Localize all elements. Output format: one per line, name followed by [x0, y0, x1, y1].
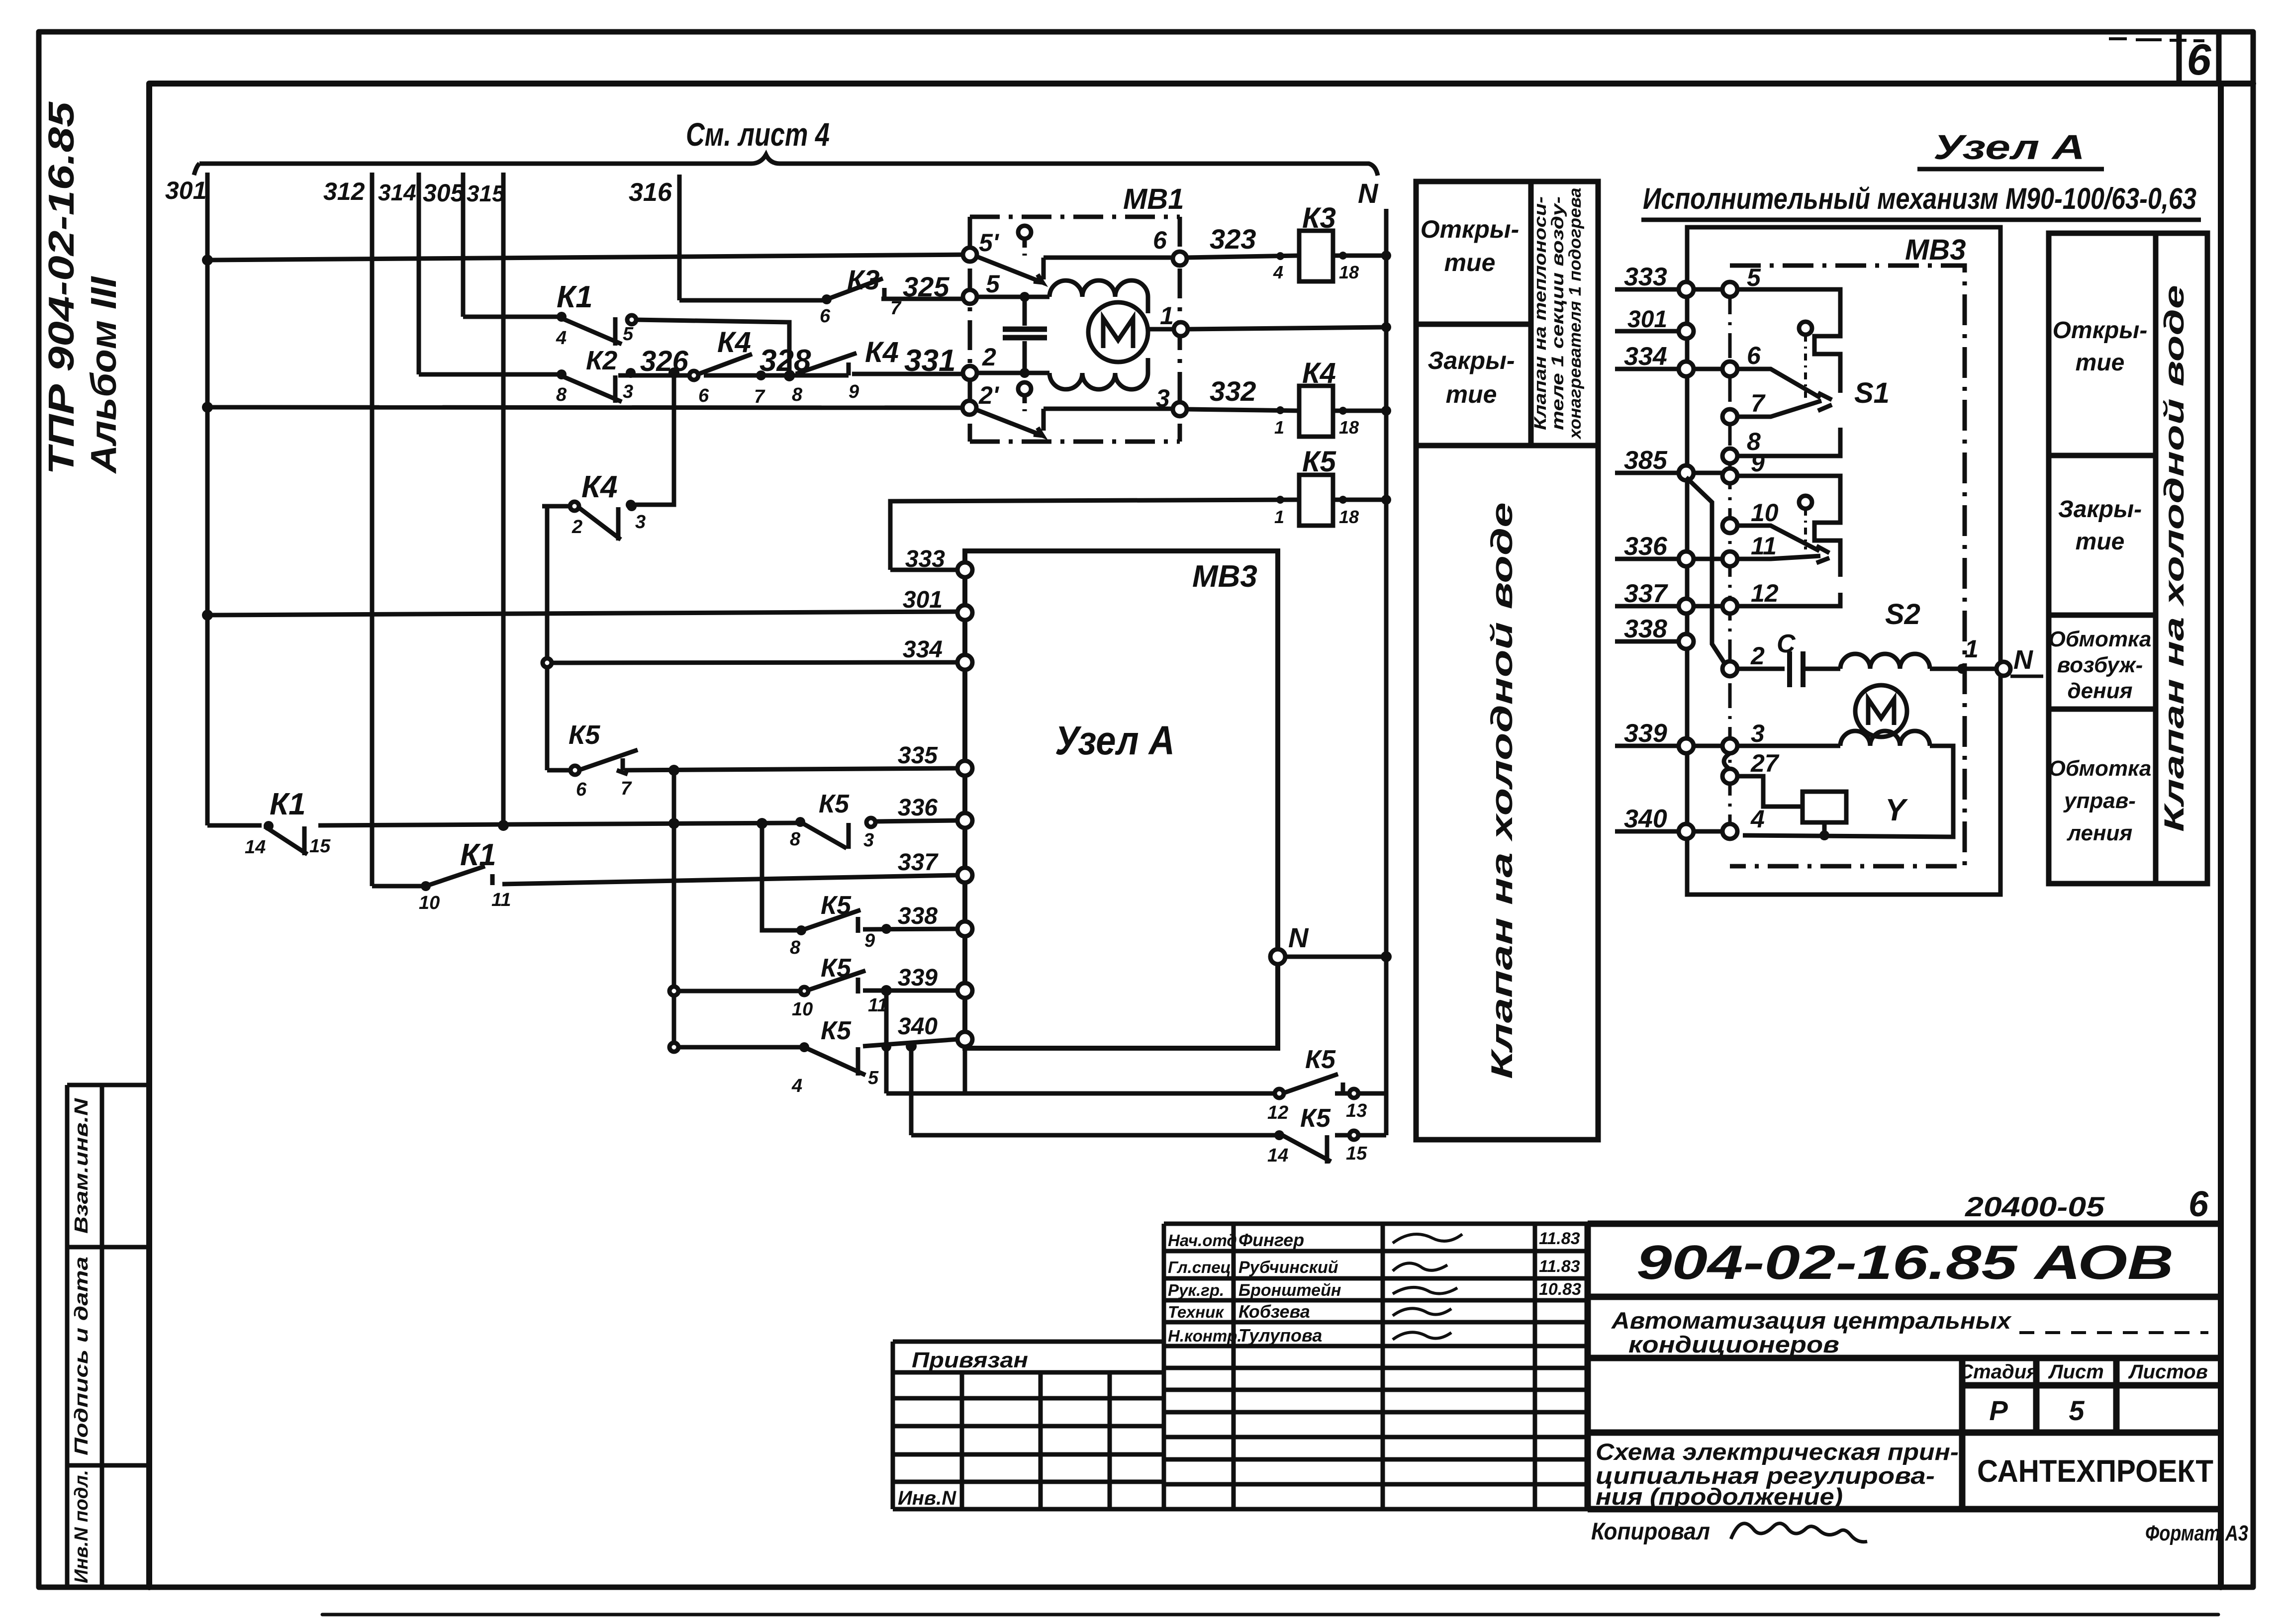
svg-text:301: 301 [903, 587, 943, 613]
svg-text:тие: тие [2076, 529, 2125, 555]
wire 326 K2 to K4 [618, 373, 691, 378]
contact K4 (6-7) [689, 354, 752, 380]
svg-text:Обмотка: Обмотка [2049, 627, 2152, 651]
svg-text:2: 2 [1750, 642, 1765, 670]
svg-text:6: 6 [576, 779, 587, 800]
svg-text:Обмотка: Обмотка [2049, 756, 2152, 781]
svg-text:4: 4 [791, 1076, 802, 1096]
excitation winding right [1840, 654, 1930, 669]
svg-text:12: 12 [1751, 579, 1779, 607]
svg-text:312: 312 [323, 178, 365, 205]
MB3 terminal 334 [957, 655, 972, 670]
vertical link wire x1100 [545, 505, 550, 770]
wire 332 from terminal 3 to relay K4 [1187, 409, 1299, 411]
svg-text:Копировал: Копировал [1591, 1519, 1710, 1545]
switch S2 fixed contact bracket [1737, 476, 1840, 606]
svg-text:6: 6 [1153, 226, 1167, 254]
MB1 motor circle [1088, 302, 1148, 362]
bus wire 301 to MB3 [207, 612, 958, 615]
svg-text:Схема электрическая прин-: Схема электрическая прин- [1596, 1439, 1959, 1465]
wire stub 333 to MB3 [890, 568, 958, 572]
svg-text:Клапан на теплоноси-: Клапан на теплоноси- [1531, 196, 1550, 430]
svg-text:К1: К1 [460, 838, 496, 872]
svg-text:11.83: 11.83 [1539, 1257, 1580, 1276]
MB1 limit switch 2' [976, 382, 1173, 436]
pin 4 tick [1276, 252, 1284, 260]
svg-text:Откры-: Откры- [2053, 317, 2148, 344]
svg-text:5: 5 [986, 270, 1000, 298]
svg-text:11: 11 [1751, 532, 1777, 560]
wire 334 to MB3 [553, 662, 958, 663]
attachment table bottom left [893, 1342, 1164, 1509]
wire 336 from K5 8-3 to MB3 [876, 820, 958, 821]
svg-text:5: 5 [2069, 1395, 2085, 1426]
terminal circles on link vertical [1722, 282, 1737, 839]
svg-text:Привязан: Привязан [912, 1348, 1028, 1372]
svg-text:9: 9 [864, 930, 875, 951]
svg-text:7: 7 [1751, 389, 1766, 417]
svg-text:C: C [1777, 630, 1796, 658]
wire K3 coil to N bus [1333, 254, 1386, 258]
svg-text:904-02-16.85 АОВ: 904-02-16.85 АОВ [1636, 1235, 2174, 1289]
svg-text:5: 5 [623, 324, 634, 345]
wire terminal 3 to winding [1737, 744, 1840, 748]
MB1 terminal 3 [1173, 402, 1187, 416]
svg-text:Узел А: Узел А [1933, 128, 2085, 167]
left small frame boxes column [67, 1085, 149, 1587]
svg-text:10: 10 [792, 999, 813, 1020]
svg-text:326: 326 [640, 345, 689, 377]
svg-text:11: 11 [491, 890, 511, 910]
svg-text:12: 12 [1267, 1102, 1288, 1123]
MB3 terminal 336 [957, 813, 972, 828]
svg-text:334: 334 [1624, 342, 1667, 371]
input wire 334 right [1615, 367, 1730, 371]
junction dot 1 [1957, 664, 1967, 674]
wire from MB3 area to relay K5 [890, 500, 1299, 570]
underline N right [2010, 675, 2043, 678]
capacitor C right [1737, 651, 1840, 687]
bus wire 301 to MB1 terminal 5' [207, 255, 970, 260]
pin 18 k5 [1339, 496, 1347, 504]
contact K5 (14-15) [1282, 1135, 1331, 1164]
actuator MB1 dash-dot box [970, 217, 1180, 442]
wire terminal 1 to N bus [1188, 327, 1386, 329]
title block main frame [1588, 1224, 2221, 1509]
wire 27 to Y element [1737, 776, 1803, 807]
branch vertical to K5 8-9 [762, 823, 797, 930]
contact K1 (4-5) [558, 315, 636, 346]
svg-text:339: 339 [1624, 719, 1667, 748]
motor M right circle [1855, 685, 1907, 737]
svg-text:К3: К3 [1302, 202, 1336, 234]
svg-text:336: 336 [1624, 532, 1668, 561]
svg-text:К1: К1 [557, 280, 593, 314]
wire 328 K4 to K4 [704, 373, 849, 378]
svg-text:323: 323 [1210, 223, 1256, 255]
N bus vertical [1384, 209, 1389, 1135]
svg-text:Автоматизация центральных: Автоматизация центральных [1611, 1307, 2012, 1334]
svg-text:Формат А3: Формат А3 [2145, 1521, 2248, 1545]
svg-text:6: 6 [1747, 342, 1761, 369]
wire 314 vertical [417, 173, 421, 374]
svg-text:N: N [1288, 922, 1309, 953]
input wire 301 right [1615, 329, 1686, 334]
MB3 terminal 301 [957, 605, 972, 620]
MB3 terminal 340 [957, 1032, 972, 1047]
MB1 motor M letter [1103, 318, 1133, 348]
svg-text:Взам.инв.N: Взам.инв.N [71, 1097, 92, 1234]
svg-text:К5: К5 [821, 954, 852, 983]
svg-text:Закры-: Закры- [1427, 347, 1515, 374]
wire winding to N right [1930, 667, 2008, 671]
pin 18 [1339, 252, 1347, 260]
svg-text:337: 337 [1624, 579, 1668, 608]
MB1 terminal 5' [963, 248, 977, 262]
svg-text:Р: Р [1989, 1395, 2008, 1426]
svg-text:4: 4 [556, 328, 567, 349]
svg-text:Клапан на холодной воде: Клапан на холодной воде [1485, 502, 1519, 1079]
svg-text:САНТЕХПРОЕКТ: САНТЕХПРОЕКТ [1977, 1454, 2213, 1489]
svg-text:К5: К5 [819, 790, 850, 818]
wire 315 vertical [501, 173, 506, 825]
wire 323 from terminal 6 to relay K3 [1187, 256, 1299, 258]
svg-text:340: 340 [1624, 805, 1667, 833]
svg-text:ления: ления [2067, 821, 2133, 845]
MB3 unit A box [965, 551, 1278, 1048]
wire 312 to contact K1 10-11 [372, 884, 422, 889]
input wire 339 right [1615, 744, 1730, 748]
svg-text:14: 14 [245, 837, 266, 858]
svg-text:Гл.спец.: Гл.спец. [1168, 1258, 1236, 1276]
svg-text:теле 1 секции возду-: теле 1 секции возду- [1548, 196, 1567, 430]
MB1 motor windings lower [1049, 373, 1148, 389]
svg-text:МВ3: МВ3 [1905, 234, 1966, 266]
MB1 limit switch 5' [977, 226, 1173, 282]
svg-text:336: 336 [898, 795, 938, 821]
svg-text:К5: К5 [1305, 1045, 1336, 1074]
svg-text:К5: К5 [569, 720, 600, 750]
terminal circles on left bus [1679, 282, 1694, 839]
chain vertical from 335 net [672, 770, 676, 1047]
MB1 terminal 6 [1173, 252, 1187, 266]
svg-text:4: 4 [1273, 262, 1283, 282]
wire 339 line K5 10-11 [678, 991, 958, 991]
contact K5 (12-13) [1275, 1074, 1358, 1098]
svg-text:10: 10 [1751, 499, 1779, 527]
pin 1 tick [1276, 406, 1284, 414]
svg-text:К5: К5 [821, 1016, 852, 1045]
input wire 337 right [1615, 604, 1730, 609]
contact K1 (14-15) [265, 826, 307, 855]
svg-text:328: 328 [760, 344, 811, 378]
svg-text:11.83: 11.83 [1539, 1229, 1580, 1248]
wire 340 line K5 4-5 [678, 1039, 958, 1047]
pin 18 k4 [1339, 407, 1347, 415]
contact K1 (10-11) [426, 866, 485, 886]
wire K4 lower contact to junction [634, 372, 674, 505]
MB1 terminal 5 [963, 290, 977, 304]
wire K5 coil to N bus [1333, 498, 1386, 502]
svg-text:13: 13 [1346, 1100, 1367, 1121]
signature table frame [1164, 1224, 1588, 1509]
svg-text:14: 14 [1267, 1145, 1288, 1166]
svg-text:Тулупова: Тулупова [1238, 1325, 1322, 1346]
svg-text:К5: К5 [1300, 1104, 1331, 1133]
contact K5 (6-7) [570, 750, 638, 775]
wire K5 12-13 line [886, 1091, 1386, 1096]
svg-text:6: 6 [2188, 1184, 2209, 1224]
wire K4 lower left lead [542, 504, 573, 509]
MB1 terminal 2' [962, 401, 976, 415]
Y element rectangle [1803, 792, 1846, 822]
wire winding loop down right [1743, 746, 1953, 837]
svg-text:3: 3 [863, 830, 874, 851]
svg-text:5: 5 [868, 1068, 879, 1088]
svg-text:8: 8 [792, 384, 803, 405]
bottom paper edge line [322, 1613, 2218, 1617]
relay coil K3 [1299, 231, 1333, 281]
svg-text:8: 8 [556, 384, 567, 405]
Y element bottom tap [1822, 822, 1827, 835]
svg-text:3: 3 [1751, 720, 1765, 747]
wire bus2 to windings [977, 358, 1148, 373]
link vertical with terminals [1728, 289, 1732, 831]
contact K5 (8-3) [800, 818, 875, 849]
switch S1 fixed contact bracket [1737, 289, 1840, 456]
svg-text:тие: тие [2076, 350, 2125, 376]
wire 316 vertical [677, 175, 682, 300]
svg-text:Альбом III: Альбом III [84, 275, 124, 474]
input wire 338 right [1615, 639, 1686, 644]
svg-text:См. лист 4: См. лист 4 [686, 116, 830, 153]
svg-text:11: 11 [868, 995, 887, 1016]
svg-text:2: 2 [571, 517, 582, 538]
svg-text:Исполнительный механизм М90-10: Исполнительный механизм М90-100/63-0,63 [1643, 182, 2196, 215]
bracket line over incoming wires [194, 155, 1378, 176]
svg-text:340: 340 [898, 1013, 938, 1040]
svg-text:Нач.отд: Нач.отд [1168, 1231, 1237, 1250]
svg-text:338: 338 [898, 903, 938, 929]
svg-text:N: N [2013, 645, 2033, 675]
svg-text:К1: К1 [270, 787, 306, 821]
svg-text:К5: К5 [821, 891, 852, 920]
contact K2 (8-3) [558, 374, 622, 403]
table 1 frame [1416, 181, 1598, 1140]
svg-text:316: 316 [629, 178, 672, 207]
svg-text:8: 8 [790, 937, 801, 958]
svg-text:18: 18 [1339, 417, 1359, 438]
MB3 terminal N [1270, 949, 1285, 964]
wire MB3 N to N bus [1285, 955, 1386, 959]
open circle junction on x1100 link [543, 658, 552, 667]
contact K5 (4-5) [669, 1043, 865, 1076]
wire K5 14-15 line [911, 1133, 1386, 1138]
input wire 385 right [1615, 471, 1730, 475]
svg-text:Фингер: Фингер [1238, 1230, 1304, 1250]
svg-text:Узел А: Узел А [1055, 718, 1175, 763]
svg-text:дения: дения [2067, 679, 2132, 703]
contact K4 (2-3) lower [570, 502, 621, 541]
svg-text:7: 7 [890, 298, 902, 319]
MB3 terminal 335 [957, 761, 972, 776]
svg-text:7: 7 [754, 386, 765, 407]
MB1 motor windings upper [1049, 280, 1148, 297]
svg-text:314: 314 [378, 180, 416, 205]
svg-text:1: 1 [1160, 302, 1174, 330]
svg-text:Рук.гр.: Рук.гр. [1168, 1281, 1224, 1299]
svg-text:К2: К2 [586, 346, 617, 375]
svg-text:2': 2' [978, 381, 1000, 409]
wire motor to terminal 1 [1148, 327, 1174, 332]
wire 337 from K1 10-11 to MB3 [502, 875, 958, 884]
svg-text:Подпись и дата: Подпись и дата [71, 1257, 92, 1455]
underline Uzel A [1917, 167, 2104, 172]
svg-text:8: 8 [790, 829, 801, 850]
svg-text:18: 18 [1339, 507, 1359, 527]
svg-text:ТПР 904-02-16.85: ТПР 904-02-16.85 [42, 101, 82, 475]
junction dot capacitor top [1020, 292, 1030, 302]
vertical from 339 junction down to K5 12-13 line [884, 991, 889, 1093]
MB1 capacitor [1003, 297, 1047, 373]
svg-text:325: 325 [903, 271, 950, 302]
dotted continuation [2019, 1331, 2208, 1334]
wire 305 vertical [461, 173, 466, 317]
svg-text:ния (продолжение): ния (продолжение) [1596, 1483, 1843, 1510]
svg-text:Инв.N: Инв.N [898, 1487, 956, 1509]
bypass wire 385 to terminal 2 [1686, 477, 1726, 665]
wire bus5 to windings [977, 297, 1148, 313]
wire 331 K4 to MB1 terminal 2 [852, 372, 963, 376]
MB3 terminal 339 [957, 983, 972, 998]
svg-text:385: 385 [1624, 446, 1668, 475]
contact K5 (10-11) [669, 971, 865, 995]
svg-text:15: 15 [1346, 1143, 1367, 1164]
svg-text:управ-: управ- [2063, 789, 2136, 813]
svg-text:Рубчинский: Рубчинский [1238, 1258, 1338, 1277]
svg-text:18: 18 [1339, 262, 1359, 282]
svg-text:тие: тие [1446, 380, 1497, 408]
svg-text:334: 334 [903, 636, 943, 663]
svg-text:Техник: Техник [1168, 1303, 1225, 1321]
control winding right [1840, 731, 1930, 746]
MB3 terminal 333 [957, 562, 972, 577]
svg-text:N: N [1358, 178, 1379, 209]
svg-text:К4: К4 [865, 336, 899, 368]
svg-text:Инв.N подл.: Инв.N подл. [71, 1470, 92, 1583]
wire K1 output to junction [635, 320, 789, 376]
wire 325 from K3 to MB1 terminal 5 [881, 297, 963, 301]
svg-text:6: 6 [698, 385, 709, 406]
svg-text:339: 339 [898, 965, 938, 991]
wire 305 to contact K1 [463, 315, 558, 319]
svg-text:Листов: Листов [2128, 1361, 2208, 1383]
wire 301 vertical [205, 173, 210, 825]
junction dot capacitor bottom [1020, 368, 1030, 378]
junction dots left area [202, 255, 917, 1052]
svg-text:К4: К4 [717, 326, 751, 359]
svg-text:тие: тие [1444, 249, 1496, 276]
svg-text:10: 10 [419, 893, 440, 913]
open circle N [1997, 662, 2010, 676]
svg-text:Бронштейн: Бронштейн [1238, 1281, 1341, 1300]
scan artifact dashes top right [2109, 39, 2204, 41]
table 2 frame [2049, 233, 2207, 884]
svg-text:338: 338 [1624, 615, 1667, 643]
svg-text:S2: S2 [1885, 598, 1920, 631]
svg-text:К4: К4 [1302, 357, 1336, 389]
svg-text:1: 1 [1274, 417, 1284, 438]
svg-text:335: 335 [898, 742, 938, 769]
MB3 terminal 337 [957, 868, 972, 883]
right unit outer solid box [1687, 227, 2000, 895]
svg-text:хонагревателя 1 подогрева: хонагревателя 1 подогрева [1566, 188, 1585, 440]
sheet number box top right [2179, 32, 2219, 84]
svg-text:1: 1 [1274, 507, 1284, 527]
junction dot Y tap [1819, 830, 1829, 840]
svg-text:Откры-: Откры- [1421, 215, 1520, 243]
svg-text:МВ1: МВ1 [1123, 183, 1184, 215]
vertical from MB3 bottom to K5 12-13 line [963, 1048, 967, 1093]
svg-text:333: 333 [1624, 263, 1667, 291]
svg-text:301: 301 [1627, 306, 1667, 333]
contact K4 (8-9) [796, 353, 856, 374]
contact K3 (6-7) [827, 278, 883, 299]
N bus junction dots [1381, 251, 1392, 962]
wire K1 14-15 line with 315 junction to K5 8-3 contact [207, 823, 796, 825]
svg-text:6: 6 [820, 306, 831, 327]
wire 335 from K5 to MB3 [624, 768, 958, 770]
svg-text:МВ3: МВ3 [1192, 559, 1257, 594]
svg-text:Кобзева: Кобзева [1238, 1301, 1310, 1322]
svg-text:305: 305 [423, 179, 465, 207]
svg-text:6: 6 [2187, 35, 2212, 84]
svg-text:15: 15 [309, 836, 331, 857]
motor M right letter [1868, 699, 1894, 725]
bracket 3 to 27 [1724, 753, 1730, 769]
svg-text:S1: S1 [1854, 377, 1890, 409]
svg-text:Н.контр.: Н.контр. [1168, 1327, 1241, 1345]
svg-text:5': 5' [979, 229, 1000, 257]
svg-text:Закры-: Закры- [2058, 496, 2142, 523]
bus wire to MB1 terminal 2' [207, 407, 962, 408]
svg-text:7: 7 [621, 778, 632, 799]
kopiroval signature [1731, 1524, 1867, 1542]
underline mechanism [1641, 218, 2201, 222]
svg-text:Клапан на холодной воде: Клапан на холодной воде [2158, 285, 2189, 832]
vertical from 340 junction down to K5 14-15 line [909, 1046, 914, 1135]
svg-text:301: 301 [165, 177, 206, 204]
svg-text:2: 2 [982, 343, 996, 371]
svg-text:возбуж-: возбуж- [2057, 653, 2143, 677]
svg-text:1: 1 [1965, 635, 1979, 663]
svg-text:3: 3 [635, 512, 646, 533]
svg-text:Y: Y [1885, 793, 1908, 827]
MB3 terminal 338 [957, 921, 972, 936]
svg-text:4: 4 [1750, 805, 1765, 833]
wire 316 to contact K3 [679, 298, 823, 303]
MB1 terminal 2 [963, 366, 977, 380]
input wire 340 right [1615, 829, 1730, 834]
svg-text:332: 332 [1210, 375, 1256, 407]
right unit MB3 dash-dot box [1730, 266, 1965, 866]
svg-text:10.83: 10.83 [1539, 1280, 1581, 1299]
svg-text:Стадия: Стадия [1959, 1361, 2038, 1383]
svg-text:К5: К5 [1302, 446, 1336, 478]
svg-text:9: 9 [1751, 449, 1765, 477]
pin 1 tick k5 [1276, 496, 1284, 504]
input wire 333 right [1615, 287, 1730, 292]
